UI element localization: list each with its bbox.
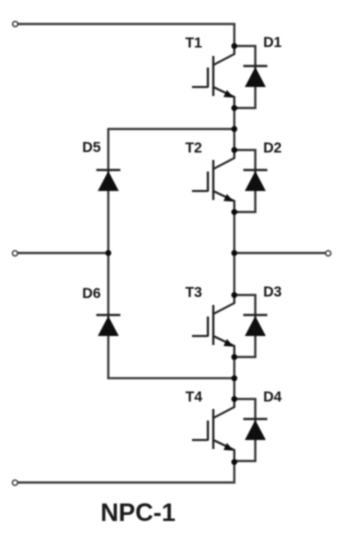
wire: clamp rail lower (through D6) — [107, 253, 109, 378]
diode D6 (clamp) — [96, 315, 120, 336]
node T4 emitter — [231, 459, 237, 465]
diode D2 (freewheel) — [234, 150, 267, 212]
diode D4 (freewheel) — [234, 399, 267, 461]
node T3 emitter — [231, 354, 237, 360]
wire: rail T2 emitter to T3 collector — [233, 212, 235, 295]
node T4 collector — [231, 396, 237, 402]
node output junction — [231, 250, 237, 256]
svg-text:T2: T2 — [185, 140, 202, 156]
transistor T4 (IGBT) — [192, 399, 234, 461]
transistor T1 (IGBT) — [192, 46, 234, 108]
svg-text:D1: D1 — [263, 35, 282, 51]
terminal: AC output — [326, 251, 331, 256]
svg-text:D3: D3 — [263, 285, 282, 301]
node T1 collector — [231, 43, 237, 49]
diode D1 (freewheel) — [234, 46, 267, 108]
node B junction — [231, 375, 237, 381]
terminal: DC+ input — [13, 21, 18, 26]
wire: node A link (clamp rail top to rail) — [108, 128, 234, 130]
svg-text:D6: D6 — [82, 286, 101, 302]
transistor T3 (IGBT) — [192, 295, 234, 357]
svg-text:NPC-1: NPC-1 — [100, 499, 175, 527]
wire: bottom negative feed — [15, 462, 234, 483]
svg-text:D2: D2 — [263, 140, 282, 156]
wire: rail T3 emitter to T4 collector — [233, 357, 235, 399]
svg-text:T4: T4 — [185, 389, 202, 405]
node T2 emitter — [231, 209, 237, 215]
diode D3 (freewheel) — [234, 295, 267, 357]
node neutral junction — [105, 250, 111, 256]
node A junction — [231, 126, 237, 132]
terminal: DC- input — [12, 480, 17, 485]
wire: node B link (clamp rail bottom to rail) — [108, 377, 234, 379]
wire: output (rail to right terminal) — [234, 252, 328, 254]
svg-text:D4: D4 — [263, 390, 282, 406]
node T3 collector — [231, 292, 237, 298]
wire: neutral input (left terminal to clamp rail) — [15, 252, 108, 254]
wire: clamp rail upper (through D5) — [107, 129, 109, 253]
wire: rail T1 emitter to T2 collector — [233, 108, 235, 150]
node T2 collector — [231, 147, 237, 153]
transistor T2 (IGBT) — [192, 150, 234, 212]
svg-text:T1: T1 — [185, 35, 202, 51]
svg-text:T3: T3 — [185, 285, 202, 301]
svg-text:D5: D5 — [82, 140, 101, 156]
wire: top positive feed — [15, 24, 234, 46]
terminal: neutral input — [12, 251, 17, 256]
diode D5 (clamp) — [96, 170, 120, 191]
node T1 emitter — [231, 105, 237, 111]
